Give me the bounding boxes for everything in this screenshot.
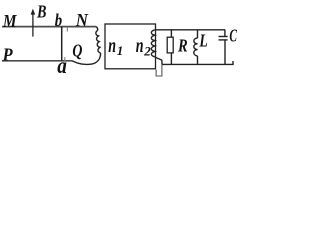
- svg-text:C: C: [229, 26, 237, 46]
- svg-text:R: R: [177, 36, 188, 56]
- svg-text:a: a: [57, 53, 67, 78]
- svg-text:P: P: [2, 45, 14, 65]
- svg-text:Q: Q: [72, 41, 82, 61]
- svg-text:N: N: [75, 10, 89, 30]
- svg-text:n: n: [108, 33, 116, 57]
- svg-text:b: b: [55, 10, 62, 30]
- svg-text:B: B: [36, 2, 46, 22]
- svg-text:1: 1: [117, 43, 124, 58]
- svg-text:n: n: [136, 33, 144, 57]
- svg-text:2: 2: [143, 44, 151, 59]
- svg-text:M: M: [2, 11, 17, 31]
- svg-text:L: L: [199, 30, 208, 50]
